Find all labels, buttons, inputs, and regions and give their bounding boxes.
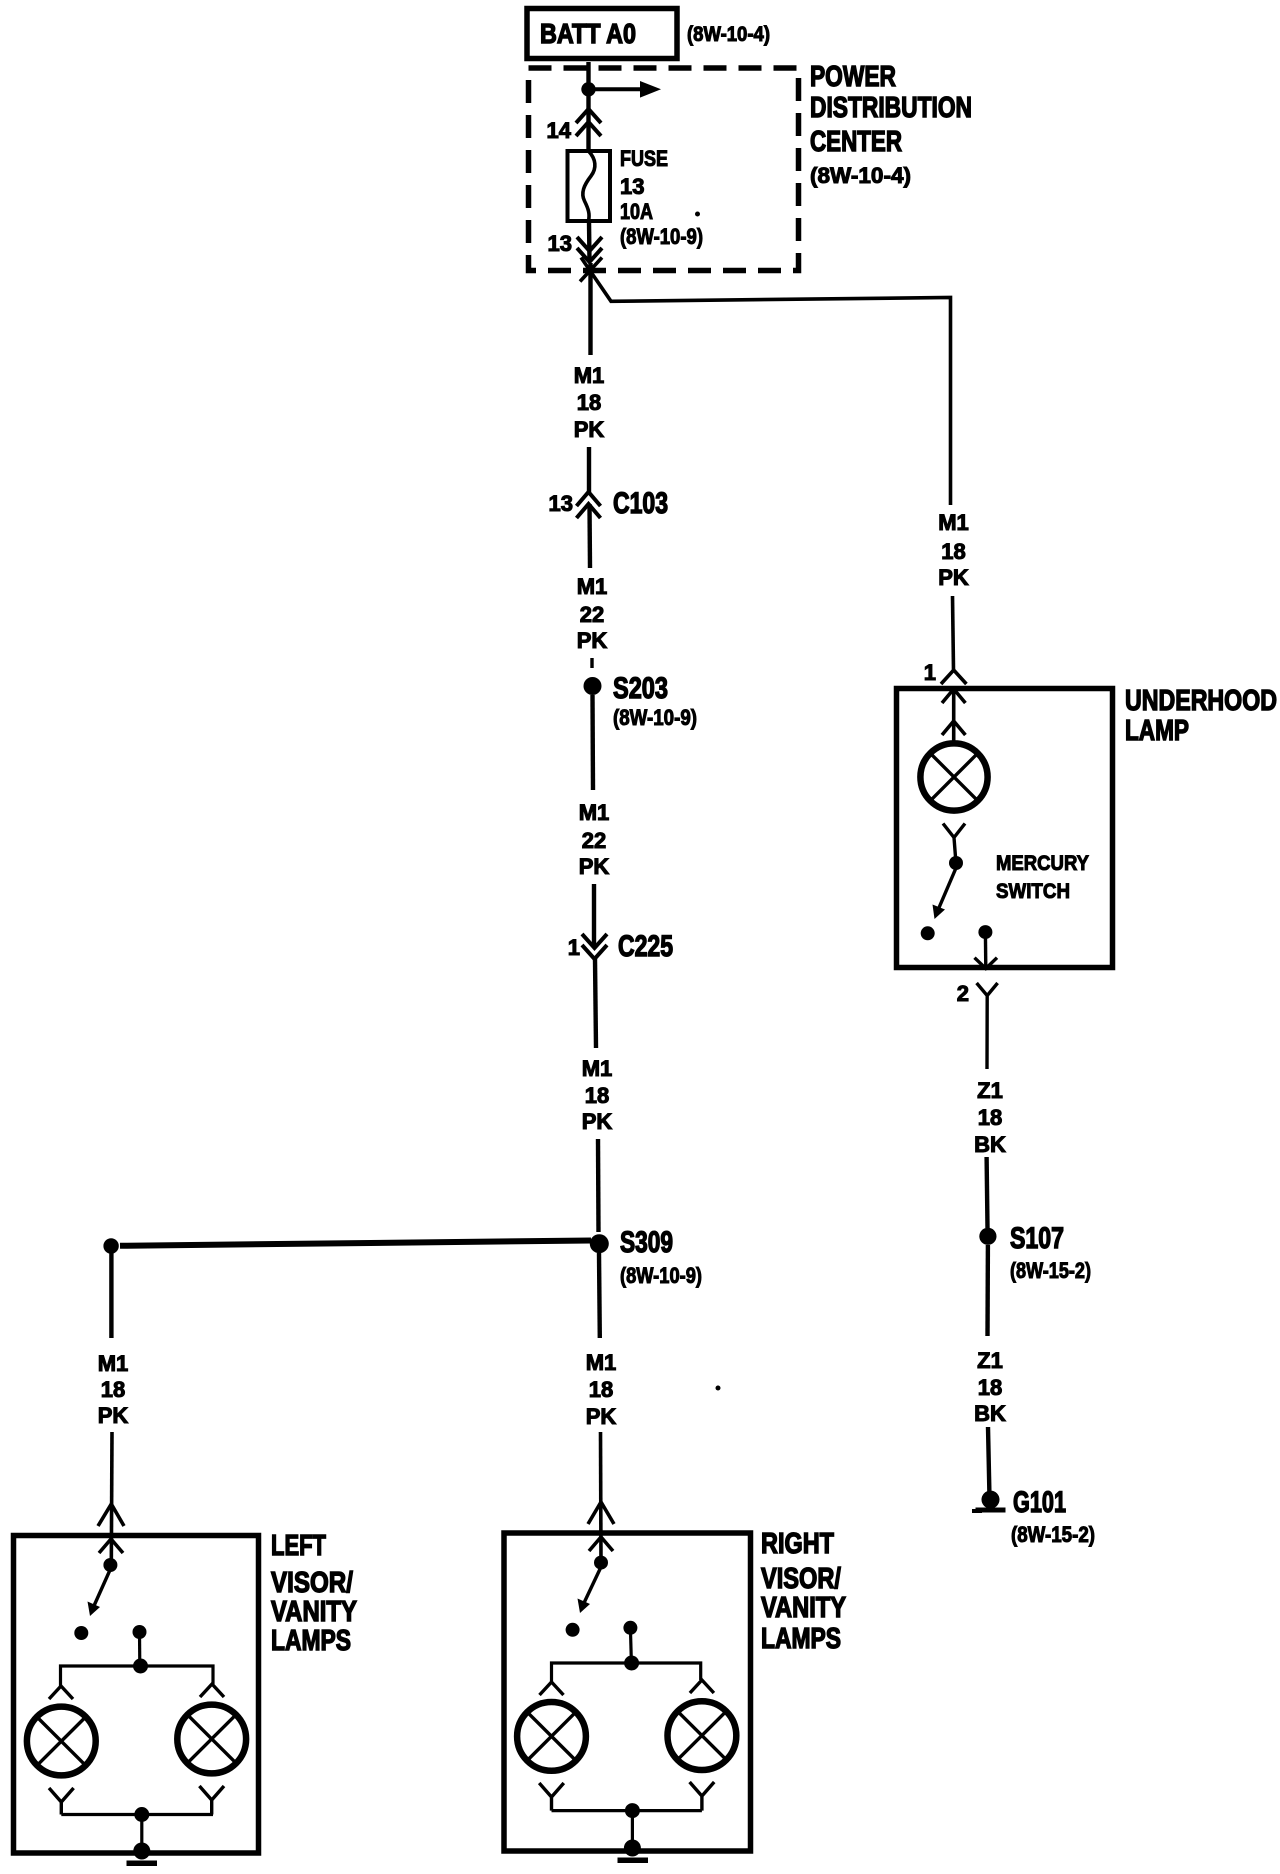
- svg-text:LAMPS: LAMPS: [271, 1625, 351, 1657]
- svg-text:2: 2: [957, 981, 969, 1006]
- lamp 4 (right visor): [668, 1701, 737, 1770]
- pin 1 chevron above underhood box: [941, 670, 966, 684]
- wire left branch down: [109, 1253, 113, 1338]
- wire S309 down to right visor box: [597, 1253, 602, 1338]
- connector chevron above right box: [588, 1502, 614, 1524]
- lamp 4 chevron: [690, 1680, 714, 1693]
- svg-text:M1: M1: [577, 574, 608, 599]
- svg-text:M1: M1: [579, 800, 610, 825]
- connector chevron inside left box: [99, 1539, 123, 1553]
- scan speck right of PK: [716, 1386, 721, 1391]
- svg-text:(8W-10-9): (8W-10-9): [620, 224, 703, 249]
- svg-text:BK: BK: [974, 1132, 1006, 1157]
- wire C225 down: [595, 959, 596, 1048]
- junction node on left lower bus: [134, 1807, 149, 1822]
- connector C225 chevrons: [582, 934, 607, 959]
- wire S203 down: [590, 695, 595, 790]
- right switch contact A node: [566, 1623, 580, 1637]
- wire: [587, 447, 591, 492]
- svg-text:PK: PK: [586, 1404, 617, 1429]
- svg-text:1: 1: [568, 935, 580, 960]
- right box ground node: [624, 1840, 641, 1857]
- svg-text:S203: S203: [613, 672, 668, 705]
- wire junction to pin 14: [586, 89, 590, 151]
- svg-text:(8W-10-4): (8W-10-4): [687, 23, 770, 46]
- wire to S309: [596, 1139, 601, 1232]
- mercury switch contact B node: [978, 925, 992, 939]
- lower bus wire in left box: [61, 1813, 213, 1816]
- pin 13 connector chevrons: [577, 237, 602, 262]
- lamp lower V to switch: [943, 824, 965, 858]
- svg-text:18: 18: [585, 1083, 609, 1108]
- svg-text:14: 14: [547, 118, 572, 143]
- label UNDERHOOD LAMP: [1125, 685, 1277, 747]
- svg-text:18: 18: [941, 539, 965, 564]
- wire to S107: [984, 1157, 989, 1228]
- svg-text:M1: M1: [938, 510, 969, 535]
- wire C103 to label: [587, 504, 592, 568]
- wire to right box ground: [631, 1811, 634, 1846]
- svg-text:(8W-10-4): (8W-10-4): [810, 163, 911, 188]
- wire S107 down: [985, 1245, 990, 1336]
- svg-text:FUSE: FUSE: [620, 146, 668, 171]
- right switch contact B node: [623, 1621, 637, 1635]
- upper bus wire in left box: [61, 1666, 214, 1686]
- svg-text:18: 18: [577, 390, 601, 415]
- svg-text:M1: M1: [582, 1056, 613, 1081]
- left switch arm with arrowhead: [88, 1570, 111, 1616]
- svg-text:Z1: Z1: [977, 1078, 1003, 1103]
- wire left branch to lamp box: [110, 1432, 114, 1565]
- svg-text:22: 22: [582, 828, 606, 853]
- wire to right box: [599, 1432, 603, 1562]
- svg-text:1: 1: [924, 660, 936, 685]
- wire fuse to pin 13: [587, 221, 592, 262]
- svg-text:22: 22: [580, 602, 604, 627]
- splice S203: [584, 677, 602, 695]
- svg-text:PK: PK: [98, 1403, 129, 1428]
- svg-text:UNDERHOOD: UNDERHOOD: [1125, 685, 1277, 717]
- svg-text:M1: M1: [586, 1350, 617, 1375]
- svg-text:VANITY: VANITY: [761, 1592, 846, 1624]
- lamp 2 chevron: [200, 1684, 224, 1697]
- wire label M1 18 PK (underhood branch): [938, 510, 969, 590]
- left visor lamps box: [14, 1536, 259, 1854]
- svg-text:13: 13: [549, 491, 573, 516]
- arrow feed to other circuits: [592, 81, 661, 98]
- junction node on left bus: [133, 1659, 148, 1674]
- underhood lamp symbol: [920, 743, 987, 810]
- svg-text:S107: S107: [1010, 1222, 1064, 1255]
- svg-text:PK: PK: [577, 628, 608, 653]
- wire contact B to bus: [630, 1628, 631, 1663]
- svg-text:10A: 10A: [620, 199, 653, 224]
- svg-text:G101: G101: [1013, 1486, 1066, 1519]
- wire S309 to left branch: [120, 1241, 591, 1246]
- right box ground bar: [618, 1858, 649, 1864]
- ground G101 bar: [976, 1508, 1006, 1513]
- wire to left box ground: [140, 1815, 143, 1849]
- svg-text:SWITCH: SWITCH: [996, 880, 1070, 903]
- pin 14 connector chevrons: [576, 109, 601, 136]
- wire label M1 18 PK (left branch): [98, 1351, 129, 1428]
- wire contact B to bus: [138, 1632, 142, 1666]
- svg-text:C103: C103: [613, 487, 668, 520]
- connector chevrons inside underhood box: [942, 689, 965, 744]
- power distribution center dashed box: [529, 68, 799, 271]
- svg-text:(8W-10-9): (8W-10-9): [620, 1263, 702, 1288]
- junction node in PDC: [581, 82, 595, 96]
- battery feed box BATT A0: [527, 9, 677, 59]
- splice S107: [979, 1228, 996, 1245]
- wire: [592, 884, 596, 947]
- svg-text:S309: S309: [620, 1226, 673, 1259]
- left switch contact A node: [74, 1626, 88, 1640]
- svg-text:(8W-15-2): (8W-15-2): [1010, 1258, 1091, 1283]
- svg-text:Z1: Z1: [977, 1348, 1003, 1373]
- wire to underhood lamp: [953, 596, 954, 670]
- svg-text:(8W-15-2): (8W-15-2): [1011, 1522, 1095, 1547]
- left box ground node: [133, 1843, 150, 1860]
- svg-text:PK: PK: [938, 565, 969, 590]
- scan speck near fuse label: [695, 212, 700, 217]
- wire label M1 22 PK (second): [579, 800, 610, 879]
- pin 2 Y connector below box: [977, 983, 998, 1069]
- wire label M1 18 PK (below C225): [582, 1056, 613, 1134]
- wire label M1 22 PK: [577, 574, 608, 653]
- lamp 2 lower V: [199, 1786, 224, 1815]
- svg-text:PK: PK: [582, 1109, 613, 1134]
- svg-text:M1: M1: [574, 363, 605, 388]
- connector C103 chevrons: [577, 492, 601, 518]
- splice S309: [590, 1234, 609, 1253]
- lamp 1 lower V: [49, 1788, 74, 1815]
- svg-text:CENTER: CENTER: [810, 126, 902, 158]
- lamp 2 (left visor): [177, 1705, 246, 1774]
- wire label Z1 18 BK (upper): [974, 1078, 1006, 1157]
- underhood lamp box: [897, 689, 1113, 968]
- right visor lamps box: [504, 1533, 751, 1851]
- wire branch to underhood lamp: [581, 258, 951, 506]
- svg-text:BK: BK: [974, 1401, 1006, 1426]
- svg-text:BATT A0: BATT A0: [540, 18, 636, 49]
- connector chevron above left box: [98, 1504, 124, 1526]
- left box ground bar: [127, 1861, 158, 1867]
- pin 2 V arrowhead above box bottom: [975, 958, 998, 969]
- scan speck right margin: [972, 1509, 982, 1513]
- svg-text:DISTRIBUTION: DISTRIBUTION: [810, 92, 972, 124]
- mercury switch contact A node: [921, 926, 935, 940]
- right switch pivot node: [594, 1556, 608, 1570]
- mercury switch arm with arrowhead: [933, 868, 957, 919]
- svg-text:POWER: POWER: [810, 61, 896, 93]
- lamp 3 chevron: [540, 1682, 564, 1695]
- svg-text:LAMP: LAMP: [1125, 715, 1189, 747]
- svg-text:13: 13: [620, 174, 644, 199]
- svg-text:18: 18: [101, 1377, 125, 1402]
- left switch pivot node: [103, 1558, 117, 1572]
- wire main feed below PDC: [588, 263, 592, 355]
- lower bus wire in right box: [552, 1809, 702, 1812]
- left switch contact B node: [133, 1625, 147, 1639]
- svg-text:C225: C225: [618, 930, 673, 963]
- lamp 4 lower V: [690, 1782, 715, 1811]
- lamp 1 (left visor): [27, 1707, 96, 1776]
- svg-text:18: 18: [589, 1377, 613, 1402]
- lamp 3 lower V: [539, 1783, 564, 1811]
- svg-text:VISOR/: VISOR/: [271, 1567, 353, 1599]
- wire contact B to pin 2: [984, 932, 988, 969]
- svg-text:M1: M1: [98, 1351, 129, 1376]
- fuse value labels FUSE 13 10A (8W-10-9): [620, 146, 703, 249]
- wire from PDC top edge to junction: [586, 62, 590, 89]
- svg-text:13: 13: [548, 231, 572, 256]
- lamp 1 chevron: [49, 1686, 73, 1699]
- connector X at PDC boundary: [580, 258, 602, 282]
- svg-text:VANITY: VANITY: [271, 1596, 357, 1628]
- wire label Z1 18 BK (lower): [974, 1348, 1006, 1426]
- label POWER DISTRIBUTION CENTER: [810, 61, 972, 188]
- junction node on right bus: [624, 1656, 639, 1671]
- junction node on right lower bus: [625, 1803, 640, 1818]
- fuse 13 10A: [568, 151, 611, 221]
- right switch arm with arrowhead: [578, 1568, 601, 1613]
- left branch junction node: [103, 1238, 118, 1253]
- connector chevron inside right box: [589, 1537, 613, 1551]
- svg-text:VISOR/: VISOR/: [761, 1563, 841, 1595]
- wire stub above splice: [590, 658, 593, 668]
- svg-text:PK: PK: [579, 854, 610, 879]
- svg-text:LAMPS: LAMPS: [761, 1623, 841, 1655]
- label LEFT VISOR/ VANITY LAMPS: [271, 1530, 357, 1657]
- label MERCURY SWITCH: [996, 852, 1089, 903]
- svg-text:(8W-10-9): (8W-10-9): [613, 705, 697, 730]
- wire label M1 18 PK (main): [574, 363, 605, 442]
- svg-text:18: 18: [978, 1375, 1002, 1400]
- svg-text:RIGHT: RIGHT: [761, 1528, 834, 1560]
- wire label M1 18 PK (below S309): [586, 1350, 617, 1429]
- mercury switch pivot node: [949, 856, 963, 870]
- svg-text:PK: PK: [574, 417, 605, 442]
- svg-text:LEFT: LEFT: [271, 1530, 326, 1562]
- wire to G101: [988, 1427, 990, 1498]
- lamp 3 (right visor): [517, 1702, 586, 1771]
- ground G101 node: [982, 1491, 1000, 1509]
- label RIGHT VISOR/ VANITY LAMPS: [761, 1528, 846, 1655]
- upper bus wire in right box: [552, 1663, 701, 1682]
- svg-text:18: 18: [978, 1105, 1002, 1130]
- svg-text:MERCURY: MERCURY: [996, 852, 1089, 875]
